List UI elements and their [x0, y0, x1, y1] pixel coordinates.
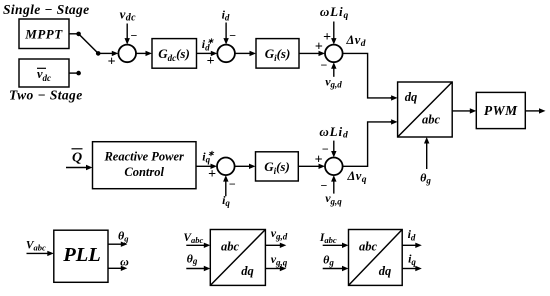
svg-text:abc: abc [422, 113, 441, 127]
svg-text:Control: Control [124, 165, 164, 179]
svg-text:abc: abc [359, 240, 378, 254]
wire Gi2 to S5 [298, 165, 319, 167]
wire RPC to S4 [196, 165, 212, 167]
svg-text:PLL: PLL [62, 244, 101, 266]
wire S1 to Gdc [136, 52, 147, 54]
wire vgq into S5 [333, 181, 335, 194]
block dq-abc transform [398, 82, 453, 137]
summing junction S3 [325, 45, 343, 63]
svg-text:abc: abc [221, 240, 240, 254]
wire S3 to dq-abc box [343, 53, 392, 98]
svg-text:+: + [208, 167, 216, 182]
svg-text:+: + [108, 54, 116, 69]
wire vgd into S3 [333, 68, 335, 77]
wire theta-g into voltage transform [186, 268, 205, 270]
block PWM [476, 92, 525, 128]
summing junction S2 [217, 45, 235, 63]
wire iq into S4 [225, 181, 227, 197]
svg-text:PWM: PWM [484, 103, 518, 118]
summing junction S1 [118, 45, 136, 63]
svg-text:Gi(s): Gi(s) [264, 159, 290, 176]
wire PLL omega output [108, 267, 122, 269]
wire Vabc into PLL [27, 252, 49, 254]
wire S5 to dq-abc box [343, 122, 392, 166]
block Reactive Power Control [93, 142, 197, 189]
summing junction S4 [217, 158, 235, 176]
wire vdc-ref output [69, 72, 79, 74]
svg-text:MPPT: MPPT [24, 26, 63, 41]
svg-text:+: + [323, 30, 331, 45]
wire dq-abc to PWM [452, 110, 471, 112]
svg-text:−: − [320, 58, 327, 72]
svg-text:−: − [130, 28, 137, 42]
wire id output [402, 244, 416, 246]
wire vgq output [265, 268, 280, 270]
svg-text:Gi(s): Gi(s) [265, 46, 291, 63]
wire theta-g into current transform [323, 268, 343, 270]
svg-text:Q: Q [72, 150, 82, 165]
wire vdc into S1 [126, 24, 128, 40]
wire theta-g into dq-abc [426, 143, 428, 170]
wire Q into RPC [66, 167, 87, 169]
summing junction S5 [325, 158, 343, 176]
wire PLL theta-g output [108, 243, 122, 245]
wire switch to sum S1 [98, 52, 113, 54]
svg-text:ω: ω [120, 255, 129, 269]
wire Gi1 to S3 [299, 52, 320, 54]
block MPPT [19, 19, 69, 49]
block Gdc(s) [152, 39, 197, 69]
svg-text:∗: ∗ [207, 37, 214, 46]
wire Gdc to S2 [197, 52, 212, 54]
svg-text:Reactive Power: Reactive Power [103, 150, 184, 164]
svg-text:dq: dq [379, 264, 392, 278]
block abc-dq current transform [349, 230, 403, 286]
block abc-dq voltage transform [210, 230, 265, 286]
block PLL [54, 230, 108, 282]
wire vgd output [265, 244, 280, 246]
svg-text:+: + [315, 40, 323, 55]
wire omega-L-id into S5 [333, 141, 335, 152]
svg-text:Single − Stage: Single − Stage [3, 2, 90, 17]
svg-text:−: − [229, 28, 236, 42]
wire PWM output [525, 110, 540, 112]
switch contact dot lower [76, 71, 81, 76]
block vdc reference [19, 59, 69, 87]
wire S2 to Gi1 [235, 52, 251, 54]
svg-text:dq: dq [405, 90, 418, 104]
block Gi2 current controller [256, 152, 299, 181]
wire iq output [402, 268, 416, 270]
switch contact dot upper [76, 32, 81, 37]
block Gi1 current controller [256, 39, 299, 69]
svg-text:−: − [320, 178, 327, 192]
wire S4 to Gi2 [235, 165, 250, 167]
wire omega-L-iq into S3 [333, 22, 335, 40]
wire Iabc into current transform [323, 244, 343, 246]
switch blade [79, 34, 99, 54]
svg-text:−: − [322, 142, 329, 156]
switch pivot dot [96, 51, 101, 56]
svg-text:Two − Stage: Two − Stage [9, 87, 83, 102]
wire Vabc into voltage transform [186, 244, 205, 246]
svg-text:+: + [207, 54, 215, 69]
svg-text:∗: ∗ [208, 149, 215, 158]
svg-text:−: − [229, 177, 236, 191]
wire MPPT output [69, 33, 79, 35]
wire id into S2 [225, 23, 227, 40]
svg-text:dq: dq [241, 264, 254, 278]
